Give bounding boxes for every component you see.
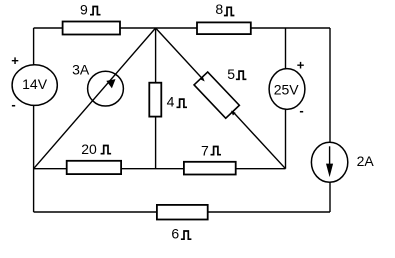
I1 arrow head (points up-right): [106, 79, 115, 88]
voltage source V1 14V: [12, 65, 57, 106]
connector arrowhead into R4 lower edge: [231, 111, 236, 116]
wire: diagonal B-E through 3A source: [34, 28, 156, 169]
svg-text:5: 5: [227, 66, 235, 82]
resistor R6 7 Ohm: [184, 162, 236, 175]
current source I2 2A: [311, 142, 347, 182]
svg-text:-: -: [11, 97, 15, 112]
wire: middle vertical B-F: [155, 28, 157, 169]
svg-text:+: +: [11, 53, 19, 68]
wire: top horizontal A-D: [34, 27, 330, 29]
svg-text:6: 6: [171, 226, 179, 242]
resistor R2 8 Ohm: [197, 22, 251, 34]
svg-text:14V: 14V: [22, 76, 48, 92]
resistor R1 9 Ohm: [63, 22, 120, 35]
svg-text:3A: 3A: [72, 61, 90, 77]
voltage source V2 25V: [269, 69, 305, 110]
svg-text:2A: 2A: [357, 153, 375, 169]
svg-text:9: 9: [80, 1, 88, 17]
svg-text:25V: 25V: [274, 81, 300, 97]
svg-text:20: 20: [81, 141, 97, 157]
svg-text:-: -: [299, 103, 303, 118]
svg-text:7: 7: [201, 143, 209, 159]
wire: left vertical A-H: [33, 28, 35, 212]
wire: bottommost horizontal H-I: [34, 211, 330, 213]
wire: bottom horizontal E-G: [34, 168, 286, 170]
svg-text:4: 4: [167, 93, 175, 109]
I2 arrow (points down): [329, 146, 331, 165]
svg-text:+: +: [297, 58, 305, 73]
resistor R3 4 Ohm (vertical): [149, 83, 161, 117]
connector arrowhead into R4 upper edge: [200, 77, 205, 82]
wire: 25V branch vertical C-G: [285, 28, 287, 169]
svg-text:8: 8: [215, 1, 223, 17]
resistor R7 6 Ohm: [157, 205, 208, 220]
resistor R5 20 Ohm: [67, 161, 121, 174]
wire: diagonal B-G through 5 Ohm resistor: [156, 28, 286, 169]
resistor R4 5 Ohm (diagonal): [194, 72, 239, 118]
current source I1 3A: [88, 71, 124, 106]
wire: right vertical D-I: [329, 28, 331, 212]
